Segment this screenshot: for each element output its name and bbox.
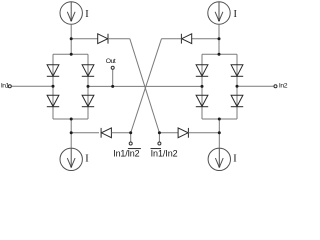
svg-text:In1: In1	[1, 82, 10, 89]
svg-text:I: I	[233, 154, 237, 165]
svg-text:Out: Out	[106, 58, 116, 65]
svg-text:In2: In2	[279, 83, 288, 90]
svg-text:I: I	[234, 9, 238, 20]
svg-text:I: I	[85, 153, 89, 164]
svg-text:In1/In2: In1/In2	[151, 149, 178, 159]
svg-text:In1/In2: In1/In2	[113, 149, 139, 159]
svg-text:I: I	[85, 9, 89, 20]
